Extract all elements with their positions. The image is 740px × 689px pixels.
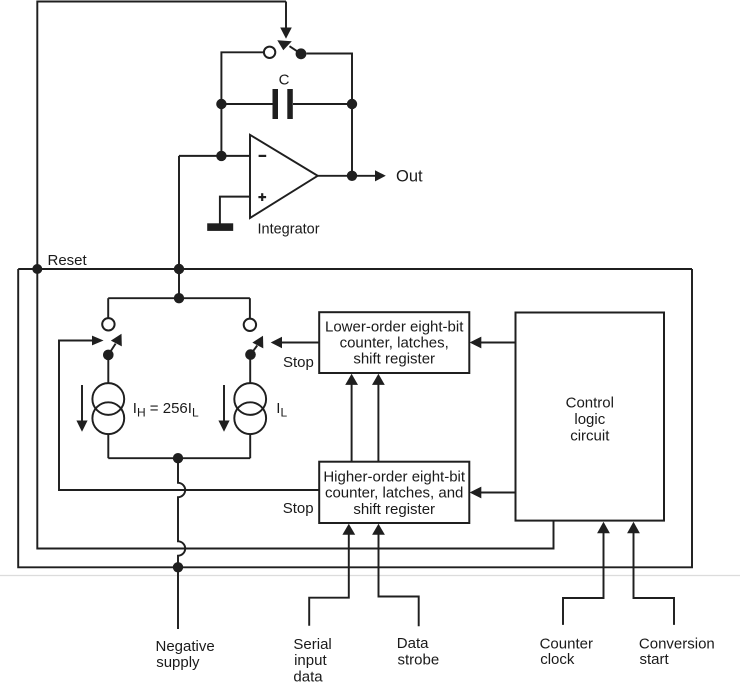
switch S2 blade — [108, 344, 115, 355]
current IL direction arrow — [223, 385, 225, 422]
svg-text:strobe: strobe — [398, 651, 440, 668]
wire serial input data to higher box — [309, 535, 349, 626]
svg-text:data: data — [293, 668, 323, 685]
wire inverting node down to bridge — [178, 156, 180, 298]
svg-text:C: C — [279, 72, 290, 89]
wire top feedback from reset net to switch — [37, 2, 553, 549]
svg-text:Lower-order eight-bit: Lower-order eight-bit — [325, 318, 464, 335]
node inverting input junction — [216, 151, 226, 161]
svg-text:logic: logic — [574, 411, 605, 428]
op-amp U1 integrator triangle — [250, 135, 318, 218]
svg-text:counter, latches, and: counter, latches, and — [325, 485, 463, 502]
wire bridge top left drop — [107, 298, 109, 318]
capacitor C plate left — [273, 89, 279, 119]
wire cap left lead — [221, 103, 272, 105]
node output junction — [347, 171, 357, 181]
current IH direction arrow — [81, 385, 83, 422]
node negative supply bottom rail junction — [173, 562, 183, 572]
wire outer loop left bottom right — [18, 269, 692, 567]
wire inverting input — [179, 155, 250, 157]
svg-text:Data: Data — [397, 635, 429, 652]
wire bridge bottom rail — [108, 457, 250, 459]
wire higher-to-lower shift path right — [377, 384, 379, 462]
wire op-amp output — [318, 175, 376, 177]
svg-text:Out: Out — [396, 168, 423, 186]
node reset-left junction — [32, 264, 42, 274]
svg-text:IH = 256IL: IH = 256IL — [133, 400, 199, 419]
svg-text:Control: Control — [566, 395, 614, 412]
reset switch SW1 blade — [290, 46, 302, 54]
svg-text:Counter: Counter — [540, 636, 593, 653]
reset switch SW1 blade arrowhead — [277, 40, 292, 50]
switch S3 blade — [251, 346, 258, 355]
wire source IH to bridge bottom — [107, 434, 109, 458]
box control logic circuit — [516, 313, 665, 521]
svg-text:Higher-order eight-bit: Higher-order eight-bit — [323, 469, 466, 486]
svg-text:shift register: shift register — [353, 501, 435, 518]
switch S2 pole dot — [103, 350, 114, 361]
switch drive arrowhead — [280, 28, 292, 39]
svg-text:Conversion: Conversion — [639, 635, 715, 652]
current source IL circles — [234, 383, 266, 415]
wire counter clock to control box — [563, 533, 604, 625]
wire stop-to-S3 — [282, 342, 320, 344]
wire noninverting input — [220, 197, 250, 224]
wire pole to cap right — [306, 54, 352, 176]
output arrowhead — [375, 170, 386, 181]
capacitor C plate right — [287, 89, 293, 119]
box lower-order counter — [319, 312, 469, 373]
wire control to lower box — [481, 342, 516, 344]
switch S2 blade arrowhead — [111, 331, 127, 347]
svg-text:Stop: Stop — [283, 500, 314, 517]
switch S3 blade arrowhead — [252, 333, 268, 349]
svg-text:counter, latches,: counter, latches, — [340, 335, 449, 352]
switch S2 open contact — [102, 318, 114, 330]
box higher-order counter — [319, 462, 469, 523]
wire control to higher box — [481, 492, 516, 494]
svg-text:Integrator: Integrator — [258, 222, 320, 238]
reset switch SW1 open contact — [264, 47, 275, 58]
svg-text:circuit: circuit — [570, 427, 610, 444]
svg-text:Serial: Serial — [293, 636, 331, 653]
wire negative supply with hops — [178, 458, 185, 629]
wire stop-to-S2 path — [59, 341, 319, 491]
switch S3 pole dot — [245, 349, 256, 360]
wire bridge top rail — [108, 297, 250, 299]
svg-text:IL: IL — [276, 400, 287, 419]
svg-text:Stop: Stop — [283, 354, 314, 371]
wire source IL to bridge bottom — [249, 434, 251, 458]
wire bridge top right drop — [249, 298, 251, 318]
svg-text:start: start — [640, 651, 670, 668]
node reset-mid junction — [174, 264, 184, 274]
switch S3 open contact — [244, 319, 256, 331]
wire higher-to-lower shift path left — [351, 384, 353, 462]
stop-to-S2 arrowhead — [92, 336, 104, 346]
wire open contact to cap left — [221, 52, 264, 156]
svg-text:supply: supply — [156, 654, 200, 671]
node bridge top junction — [174, 293, 184, 303]
op-amp plus sign — [258, 196, 266, 198]
wire reset rail — [18, 268, 692, 270]
wire S3 pole to source IL — [249, 355, 251, 384]
reset switch SW1 pole dot — [296, 48, 307, 59]
current source IH circles — [92, 383, 124, 415]
node cap-right junction — [347, 99, 357, 109]
svg-text:input: input — [294, 652, 327, 669]
stop-to-S3 arrowhead — [271, 337, 282, 348]
node bridge bottom junction — [173, 453, 183, 463]
wire cap right lead — [293, 103, 352, 105]
node cap-left junction — [216, 99, 226, 109]
op-amp minus sign — [259, 155, 267, 157]
wire data strobe to higher box — [379, 535, 419, 627]
wire S2 pole to source IH — [107, 355, 109, 383]
svg-text:shift register: shift register — [353, 351, 435, 368]
wire conversion start to control box — [634, 533, 675, 625]
svg-text:Negative: Negative — [156, 638, 215, 655]
svg-text:Reset: Reset — [48, 252, 88, 269]
svg-text:clock: clock — [540, 651, 575, 668]
wire switch drive vertical — [285, 2, 287, 29]
ground symbol — [207, 223, 233, 231]
